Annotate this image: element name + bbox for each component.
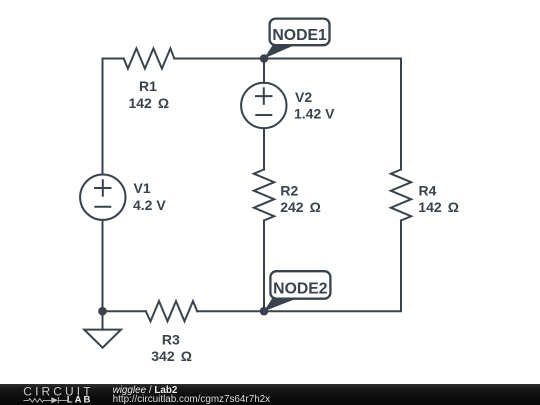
wire: R1 right to node1 xyxy=(174,58,264,60)
ground GND triangle xyxy=(84,330,121,348)
svg-text:NODE1: NODE1 xyxy=(272,27,327,44)
NODE2 label box xyxy=(270,271,330,299)
resistor R3 xyxy=(146,301,197,321)
svg-text:V1: V1 xyxy=(134,180,151,196)
CircuitLab logo xyxy=(0,384,100,405)
ground junction dot xyxy=(98,307,107,316)
voltage source V2 circle xyxy=(241,83,286,128)
wire: V1 bottom to ground junction xyxy=(102,220,104,311)
svg-text:4.2 V: 4.2 V xyxy=(133,197,166,213)
wire top-left: V1 top to R1 left xyxy=(103,59,124,175)
svg-text:NODE2: NODE2 xyxy=(273,281,328,298)
wire: node1 to R4 top xyxy=(264,59,401,170)
svg-text:1.42 V: 1.42 V xyxy=(294,106,335,122)
V1 plus sign xyxy=(95,180,111,196)
svg-text:R2: R2 xyxy=(280,183,298,199)
diode triangle xyxy=(51,397,58,403)
svg-text:R4: R4 xyxy=(419,183,437,199)
wire: R3 left to ground junction xyxy=(103,310,146,312)
NODE2 callout pointer xyxy=(264,298,298,311)
svg-text:142 Ω: 142 Ω xyxy=(418,199,459,215)
resistor R4 xyxy=(391,170,411,221)
node2 junction dot xyxy=(260,307,269,316)
wire: node1 down to V2 xyxy=(263,59,265,83)
V1 minus sign xyxy=(95,206,110,208)
svg-text:R3: R3 xyxy=(162,331,180,347)
voltage source V1 circle xyxy=(80,175,125,220)
svg-text:342 Ω: 342 Ω xyxy=(151,348,192,364)
svg-text:V2: V2 xyxy=(295,89,312,105)
svg-text:LAB: LAB xyxy=(67,395,93,405)
V2 plus sign xyxy=(256,88,272,104)
wire: node2 to R3 right xyxy=(197,310,264,312)
node1 junction dot xyxy=(260,54,269,63)
wire: V2 bottom to R2 top xyxy=(263,128,265,169)
svg-text:142 Ω: 142 Ω xyxy=(128,95,169,111)
V2 minus sign xyxy=(256,114,271,116)
wire: R2 bottom to node2 xyxy=(263,221,265,312)
resistor R2 xyxy=(254,170,274,221)
NODE1 label box xyxy=(270,19,330,46)
svg-text:242 Ω: 242 Ω xyxy=(280,199,321,215)
resistor R1 xyxy=(124,48,175,68)
svg-text:R1: R1 xyxy=(139,78,157,94)
footer bar xyxy=(0,384,540,405)
wire: R4 bottom to node2 xyxy=(264,221,401,312)
NODE1 callout pointer xyxy=(264,45,296,59)
ground GND stem xyxy=(102,311,104,329)
